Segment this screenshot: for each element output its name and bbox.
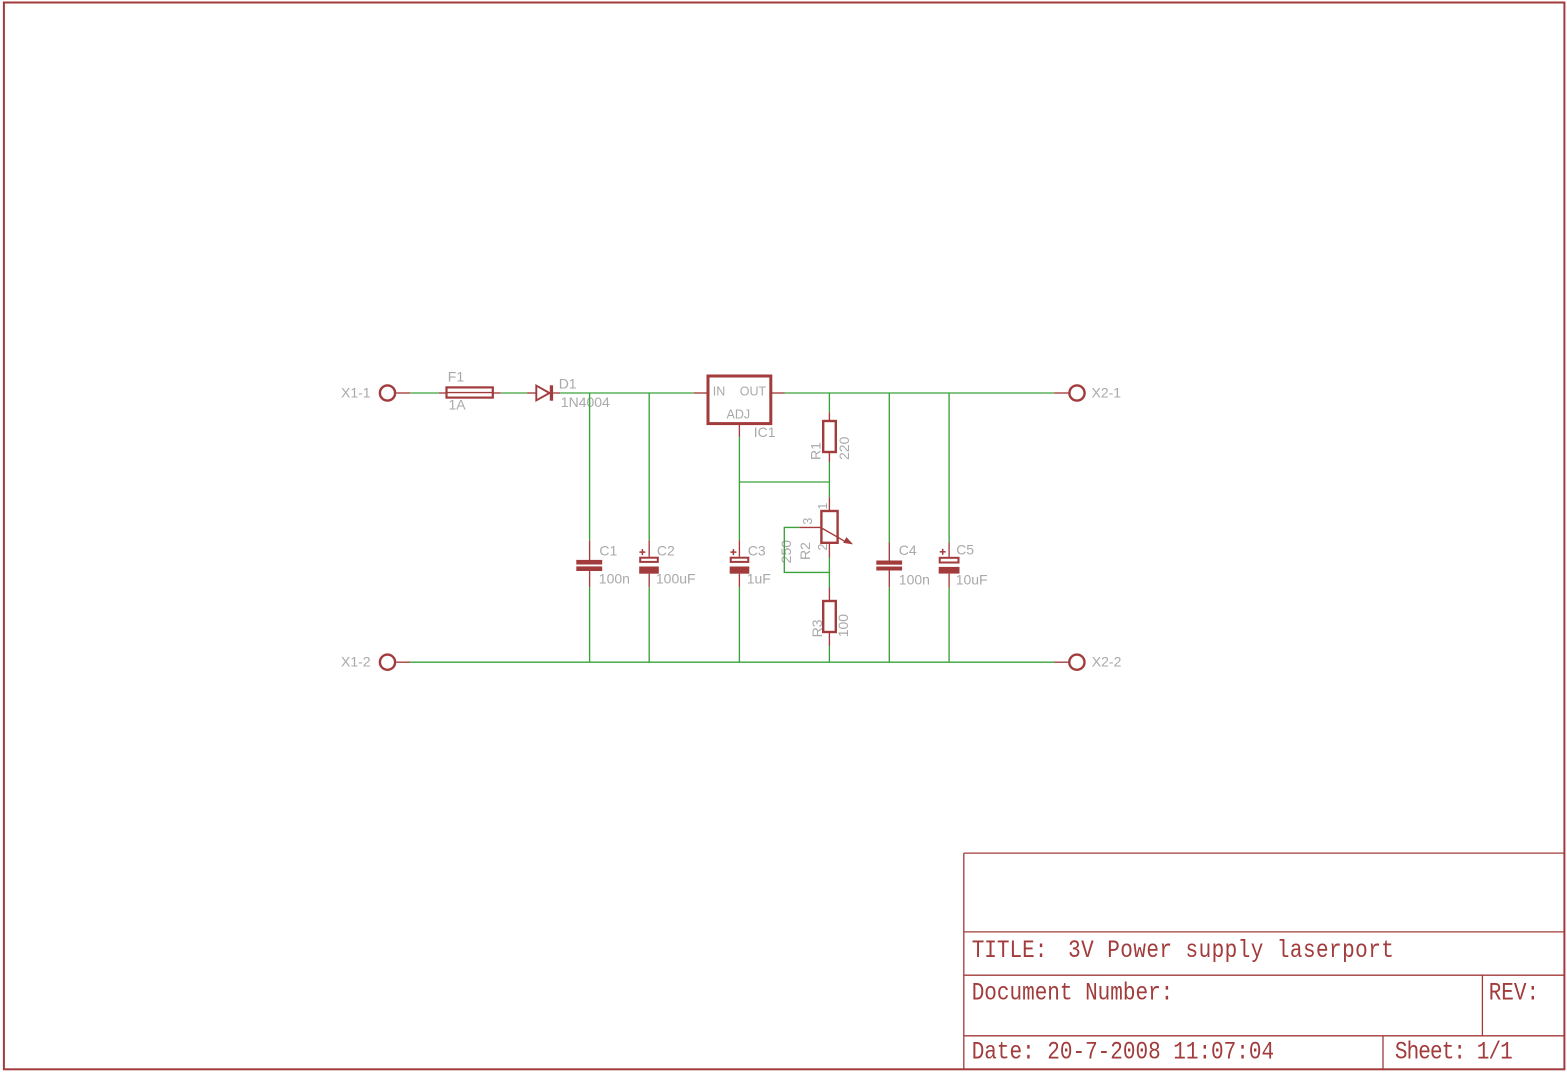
title block label Document Number: <box>972 979 1174 1007</box>
svg-text:Date: 20-7-2008 11:07:04: Date: 20-7-2008 11:07:04 <box>972 1038 1274 1066</box>
wire branch to C4 <box>888 393 890 543</box>
fuse F1 <box>439 387 501 397</box>
svg-text:REV:: REV: <box>1489 979 1539 1007</box>
wire R2 pin3 loop <box>784 527 829 572</box>
svg-text:1: 1 <box>816 503 830 510</box>
terminal X1-2 <box>380 655 410 670</box>
svg-text:3V Power supply laserport: 3V Power supply laserport <box>1068 936 1394 964</box>
capacitor C2 <box>639 540 659 587</box>
wire R1 to junction <box>828 462 830 497</box>
svg-text:1uF: 1uF <box>747 570 771 586</box>
svg-text:D1: D1 <box>559 376 577 392</box>
svg-text:100uF: 100uF <box>656 570 696 586</box>
diode D1 <box>527 385 560 400</box>
wire branch to C1 <box>589 393 591 540</box>
svg-text:100: 100 <box>835 614 851 638</box>
svg-text:IN: IN <box>713 385 726 399</box>
svg-text:250: 250 <box>778 540 794 564</box>
title text TITLE: <box>972 936 1048 964</box>
wire D1 to IC1 IN <box>560 392 694 394</box>
wire C3 to bottom rail <box>738 587 740 662</box>
terminal X2-2 <box>1054 655 1084 670</box>
title value 3V Power supply laserport <box>1068 936 1394 964</box>
wire R3 to bottom rail <box>828 646 830 662</box>
svg-text:3: 3 <box>801 518 815 525</box>
svg-text:OUT: OUT <box>740 385 767 399</box>
svg-text:2: 2 <box>816 544 830 551</box>
svg-text:R3: R3 <box>809 619 825 637</box>
terminal X1-1 <box>380 385 410 400</box>
wire branch to C5 <box>948 393 950 543</box>
title block label REV: <box>1489 979 1539 1007</box>
svg-text:X2-2: X2-2 <box>1092 654 1122 670</box>
wire X1-1 to F1 <box>410 392 439 394</box>
svg-text:ADJ: ADJ <box>727 407 751 421</box>
svg-text:Sheet: 1/1: Sheet: 1/1 <box>1395 1038 1512 1066</box>
title block outline <box>964 853 1565 1069</box>
op-amp IC1 regulator box <box>694 376 785 437</box>
wire R2 pin2 down <box>828 558 830 588</box>
terminal X2-1 <box>1054 385 1084 400</box>
svg-text:220: 220 <box>836 436 852 460</box>
svg-text:X1-1: X1-1 <box>341 385 371 401</box>
svg-text:R1: R1 <box>808 442 824 460</box>
capacitor C1 <box>576 540 602 587</box>
svg-text:10uF: 10uF <box>956 572 988 588</box>
title block label Sheet <box>1395 1038 1512 1066</box>
wire bottom rail X1-2 to X2-2 <box>410 661 1054 663</box>
svg-text:C4: C4 <box>899 542 917 558</box>
svg-text:C5: C5 <box>956 541 974 557</box>
wire C5 to bottom rail <box>948 588 950 663</box>
svg-text:C1: C1 <box>599 543 617 559</box>
wire C2 to bottom rail <box>648 587 650 662</box>
title block label Date <box>972 1038 1274 1066</box>
resistor R3 <box>823 588 836 647</box>
wire IC1 OUT to X2-1 rail <box>785 392 1055 394</box>
wire ADJ down to C3 <box>738 437 740 540</box>
svg-text:X2-1: X2-1 <box>1092 385 1122 401</box>
svg-text:F1: F1 <box>448 369 465 385</box>
resistor R1 <box>823 393 836 462</box>
potentiometer R2 <box>799 497 853 557</box>
wire C4 to bottom rail <box>888 587 890 662</box>
svg-text:100n: 100n <box>599 570 630 586</box>
capacitor C3 <box>730 540 750 587</box>
svg-text:Document Number:: Document Number: <box>972 979 1174 1007</box>
svg-text:100n: 100n <box>899 572 930 588</box>
svg-text:IC1: IC1 <box>754 424 776 440</box>
capacitor C4 <box>876 543 902 588</box>
svg-text:C2: C2 <box>657 543 675 559</box>
wire branch to C2 <box>648 393 650 540</box>
svg-text:X1-2: X1-2 <box>341 654 371 670</box>
wire F1 to D1 <box>501 392 527 394</box>
svg-text:TITLE:: TITLE: <box>972 936 1048 964</box>
capacitor C5 <box>939 543 960 588</box>
svg-text:1N4004: 1N4004 <box>561 394 610 410</box>
svg-text:1A: 1A <box>449 397 467 413</box>
wire ADJ to R1/R2 junction <box>739 481 829 483</box>
svg-text:C3: C3 <box>748 543 766 559</box>
wire C1 to bottom rail <box>589 587 591 662</box>
svg-text:R2: R2 <box>797 542 813 560</box>
